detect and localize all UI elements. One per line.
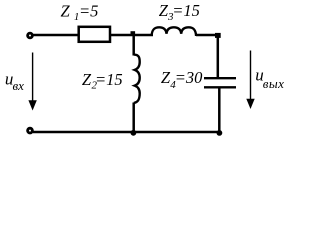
inductor Z2 (vertical coil) [134, 55, 140, 103]
input terminal top [28, 33, 33, 38]
svg-text:вх: вх [13, 78, 25, 93]
svg-text:=30: =30 [175, 68, 203, 87]
arrow u_vx (input voltage arrow) [32, 53, 34, 103]
wire right branch lower [218, 88, 221, 133]
svg-text:Z: Z [82, 70, 92, 89]
wire top rail middle [110, 34, 153, 37]
svg-text:=5: =5 [79, 2, 98, 21]
resistor Z1 (box impedance symbol) [79, 27, 110, 42]
svg-text:=15: =15 [95, 70, 123, 89]
wire Z2 branch lower [132, 103, 135, 133]
svg-text:=15: =15 [172, 1, 200, 20]
input terminal bottom [28, 128, 33, 133]
wire top rail right [196, 34, 220, 37]
wire right branch upper [217, 35, 220, 78]
node junction bottom-middle [131, 130, 137, 136]
capacitor Z4 top plate [204, 77, 236, 79]
wire top rail left [33, 34, 79, 37]
node junction top-middle [131, 31, 136, 36]
node junction bottom-right [217, 130, 223, 136]
svg-text:Z: Z [61, 2, 71, 21]
capacitor Z4 bottom plate [204, 86, 236, 88]
wire Z2 branch upper [132, 34, 135, 56]
arrow u_vyx (output voltage arrow) [250, 51, 252, 101]
inductor Z3 (horizontal coil) [152, 27, 197, 36]
node junction top-right [215, 33, 221, 38]
wire bottom rail [33, 131, 221, 134]
svg-text:вых: вых [263, 76, 285, 91]
